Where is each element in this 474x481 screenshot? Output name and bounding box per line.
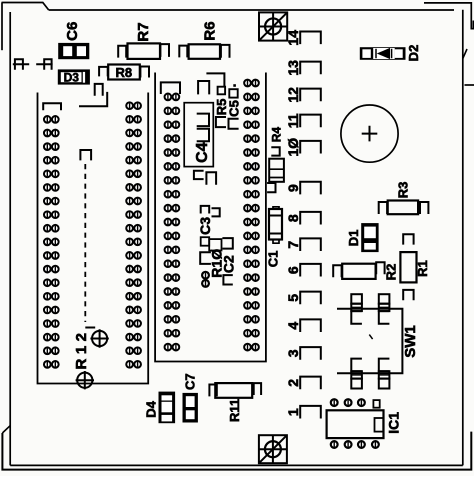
connector pin 13 bracket <box>300 62 321 75</box>
bracket below C4 left <box>194 171 204 179</box>
middle socket outline <box>155 73 266 362</box>
board inner border left edge <box>9 12 11 465</box>
jumper wire top middle socket <box>206 73 224 87</box>
jumper staple J2 <box>36 63 52 65</box>
svg-text:12: 12 <box>285 87 301 103</box>
connector pin 7 bracket <box>300 238 321 251</box>
mounting hole bottom <box>259 435 287 463</box>
capacitor C7 <box>183 393 198 423</box>
svg-text:1: 1 <box>285 408 301 416</box>
svg-text:SW1: SW1 <box>402 325 419 358</box>
svg-text:R12: R12 <box>73 328 90 369</box>
svg-text:C5: C5 <box>226 100 241 117</box>
outer contour top-right small tab <box>472 21 474 29</box>
bracket left of R10 label <box>200 252 211 264</box>
board outer contour left vertical (top) <box>1 3 3 51</box>
svg-text:14: 14 <box>285 30 301 46</box>
diode D1 <box>361 223 378 252</box>
resistor R11 <box>215 383 252 398</box>
connector pin 8 bracket <box>300 212 321 225</box>
outer contour bottom-left chamfer <box>2 425 10 433</box>
capacitor C6 <box>58 43 89 59</box>
resistor R1 <box>400 252 416 282</box>
connector pin 3 bracket <box>300 347 321 360</box>
diode D4 <box>159 392 176 424</box>
svg-text:3: 3 <box>285 349 301 357</box>
outer contour right tab line <box>465 84 474 86</box>
middle socket right column pads <box>244 80 259 87</box>
connector pin 2 bracket <box>300 377 321 390</box>
svg-text:C3: C3 <box>197 217 213 235</box>
svg-text:C1: C1 <box>265 251 280 268</box>
jumper bracket top middle socket <box>198 81 209 94</box>
mounting hole top <box>259 12 287 40</box>
switch SW1 pads bottom-right <box>379 359 390 372</box>
svg-text:IC1: IC1 <box>386 412 402 434</box>
left socket right column pads <box>126 102 141 109</box>
jumper staple J1 <box>13 63 29 65</box>
buzzer BZ1 <box>341 105 398 162</box>
board inner border right edge <box>462 10 464 466</box>
resistor R2 <box>342 264 375 279</box>
bracket below C4 right <box>206 172 216 185</box>
resistor R3 <box>388 201 418 215</box>
connector pin 14 bracket <box>300 32 321 45</box>
resistor R12 pad A <box>90 329 108 347</box>
resistor R5 pad <box>218 87 226 95</box>
svg-text:2: 2 <box>285 379 301 387</box>
diode D2 <box>360 47 406 60</box>
capacitor C5 pad <box>229 89 237 97</box>
outer contour bottom edge <box>2 432 471 470</box>
svg-text:D3: D3 <box>64 70 80 84</box>
svg-text:R7: R7 <box>135 22 152 41</box>
connector pin 9 bracket <box>300 182 321 195</box>
svg-text:9: 9 <box>285 184 301 192</box>
capacitor C4 pads <box>197 114 209 127</box>
IC1 notch <box>375 418 384 432</box>
bracket below C2 <box>223 275 232 284</box>
resistor R4 body <box>269 159 284 182</box>
bracket above C3 <box>201 206 210 214</box>
svg-text:7: 7 <box>285 241 301 249</box>
diode D3 <box>58 69 90 84</box>
svg-text:5: 5 <box>285 294 301 302</box>
jumper bracket inside left socket <box>95 84 103 96</box>
svg-text:C6: C6 <box>64 22 81 41</box>
svg-text:R8: R8 <box>115 65 132 80</box>
resistor R8 <box>108 65 140 80</box>
connector pin 10 bracket <box>300 141 321 154</box>
switch SW1 outline <box>337 309 402 373</box>
outer contour top-right <box>424 3 474 29</box>
resistor R12 pad B <box>76 371 94 389</box>
svg-text:13: 13 <box>285 60 301 76</box>
svg-text:D2: D2 <box>406 45 421 62</box>
svg-text:C7: C7 <box>182 373 197 390</box>
svg-text:1Ø: 1Ø <box>285 138 301 157</box>
capacitor C3 pad <box>201 237 210 246</box>
bracket right of R10 <box>222 238 232 249</box>
IC1 pin1 square pad <box>373 400 379 408</box>
right edge jog diagonal <box>463 49 467 58</box>
connector pin 4 bracket <box>300 319 321 332</box>
svg-text:8: 8 <box>285 214 301 222</box>
connector pin 5 bracket <box>300 292 321 305</box>
pads left of R10 label <box>202 272 209 279</box>
resistor R7 <box>128 43 161 59</box>
switch SW1 pads bottom-left <box>351 359 362 372</box>
middle socket left column pads <box>165 94 180 101</box>
IC1 body <box>327 410 384 438</box>
jumper tick <box>87 79 90 83</box>
board inner border top edge <box>49 9 454 11</box>
svg-text:D1: D1 <box>346 230 361 247</box>
middle socket pin1 bracket <box>161 82 180 94</box>
capacitor C4 outline <box>184 103 213 167</box>
resistor R4 top bracket <box>271 147 279 155</box>
connector pin 6 bracket <box>300 264 321 277</box>
svg-text:11: 11 <box>285 113 301 128</box>
switch SW1 pads top-left <box>351 294 362 304</box>
connector pin 11 bracket <box>300 115 321 128</box>
switch SW1 pads top-right <box>379 294 390 304</box>
connector pin 1 bracket <box>300 406 321 419</box>
resistor R5 bottom bracket <box>216 117 226 127</box>
svg-text:4: 4 <box>285 322 301 330</box>
resistor R12 top bracket <box>80 150 91 160</box>
svg-text:C2: C2 <box>221 255 237 273</box>
board outer contour top-left with chamfer <box>2 3 49 11</box>
connector pin 12 bracket <box>300 89 321 102</box>
resistor R4 bottom bracket <box>267 183 275 192</box>
resistor R10 pad <box>209 239 221 250</box>
svg-text:6: 6 <box>285 266 301 274</box>
left socket left column pads <box>44 116 59 123</box>
svg-text:R3: R3 <box>396 182 411 199</box>
capacitor C5 bottom bracket <box>229 119 239 129</box>
IC1 top pads <box>331 399 338 406</box>
svg-text:R4: R4 <box>270 127 284 143</box>
capacitor C5 dot <box>233 84 236 87</box>
board inner border bottom edge <box>10 464 463 466</box>
resistor R12 dashed body <box>84 164 86 322</box>
svg-text:R11: R11 <box>227 399 242 422</box>
svg-text:D4: D4 <box>144 400 159 417</box>
bracket right of C3 top <box>212 208 220 216</box>
svg-text:R6: R6 <box>202 21 219 40</box>
left socket outline <box>38 93 149 384</box>
jumper wire inside left socket <box>79 92 107 106</box>
switch SW1 arrow mark <box>369 335 372 340</box>
IC1 bottom pads <box>331 441 338 448</box>
resistor R6 <box>189 44 220 59</box>
buzzer plus mark <box>362 126 378 142</box>
left socket pin1 bracket <box>43 103 61 110</box>
svg-text:C4: C4 <box>194 142 211 163</box>
capacitor C1 body <box>269 209 282 240</box>
